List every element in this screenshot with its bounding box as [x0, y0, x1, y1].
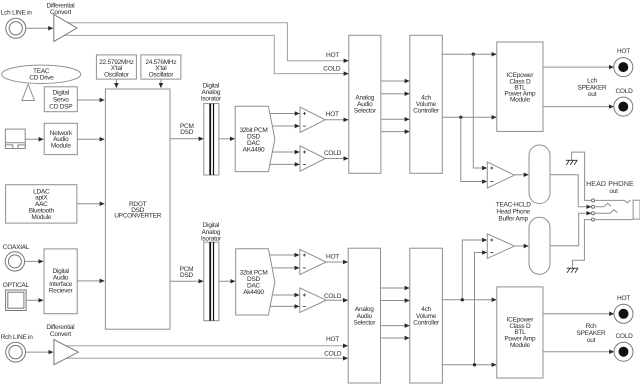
svg-text:Rch LINE in: Rch LINE in: [1, 334, 34, 341]
svg-text:Convert: Convert: [50, 9, 71, 16]
svg-text:CD DSP: CD DSP: [49, 103, 72, 110]
svg-text:Ak4490: Ak4490: [243, 289, 264, 296]
svg-text:COLD: COLD: [324, 150, 342, 157]
svg-text:Selector: Selector: [354, 108, 377, 115]
svg-text:Module: Module: [510, 97, 530, 104]
svg-text:Module: Module: [51, 143, 71, 150]
svg-text:DSD: DSD: [180, 129, 194, 136]
svg-text:Isorator: Isorator: [201, 96, 222, 103]
svg-text:COLD: COLD: [324, 293, 342, 300]
svg-text:HOT: HOT: [326, 254, 339, 261]
svg-text:Oscillator: Oscillator: [149, 72, 175, 79]
svg-text:COAXIAL: COAXIAL: [3, 244, 30, 251]
svg-text:Controller: Controller: [413, 319, 440, 326]
svg-text:Oscillator: Oscillator: [104, 72, 130, 79]
svg-text:AK4490: AK4490: [243, 147, 265, 154]
svg-text:out: out: [587, 337, 596, 344]
svg-text:Lch LINE in: Lch LINE in: [1, 9, 32, 16]
svg-text:Reciever: Reciever: [49, 288, 74, 295]
svg-text:Isorator: Isorator: [201, 235, 222, 242]
svg-text:CD Drive: CD Drive: [29, 74, 54, 81]
svg-text:UPCONVERTER: UPCONVERTER: [114, 213, 162, 220]
svg-text:Buffer Amp: Buffer Amp: [498, 215, 528, 222]
svg-text:HEAD PHONE: HEAD PHONE: [586, 181, 634, 188]
svg-text:COLD: COLD: [615, 88, 633, 95]
svg-text:HOT: HOT: [617, 295, 630, 302]
svg-text:HOT: HOT: [326, 336, 339, 343]
svg-text:Digital: Digital: [53, 89, 70, 96]
svg-text:Selector: Selector: [353, 319, 376, 326]
svg-text:Module: Module: [31, 214, 51, 221]
svg-text:Controller: Controller: [413, 108, 440, 115]
svg-text:Servo: Servo: [53, 96, 69, 103]
svg-text:HOT: HOT: [326, 111, 339, 118]
svg-text:HOT: HOT: [617, 48, 630, 55]
svg-text:COLD: COLD: [323, 66, 341, 73]
svg-text:COLD: COLD: [324, 350, 342, 357]
svg-text:out: out: [609, 188, 618, 195]
svg-text:DSD: DSD: [180, 272, 194, 279]
svg-text:Convert: Convert: [50, 331, 71, 338]
svg-text:Module: Module: [510, 342, 530, 349]
svg-text:COLD: COLD: [615, 333, 633, 340]
svg-text:out: out: [588, 91, 597, 98]
svg-text:OPTICAL: OPTICAL: [3, 282, 30, 289]
svg-text:HOT: HOT: [326, 52, 339, 59]
